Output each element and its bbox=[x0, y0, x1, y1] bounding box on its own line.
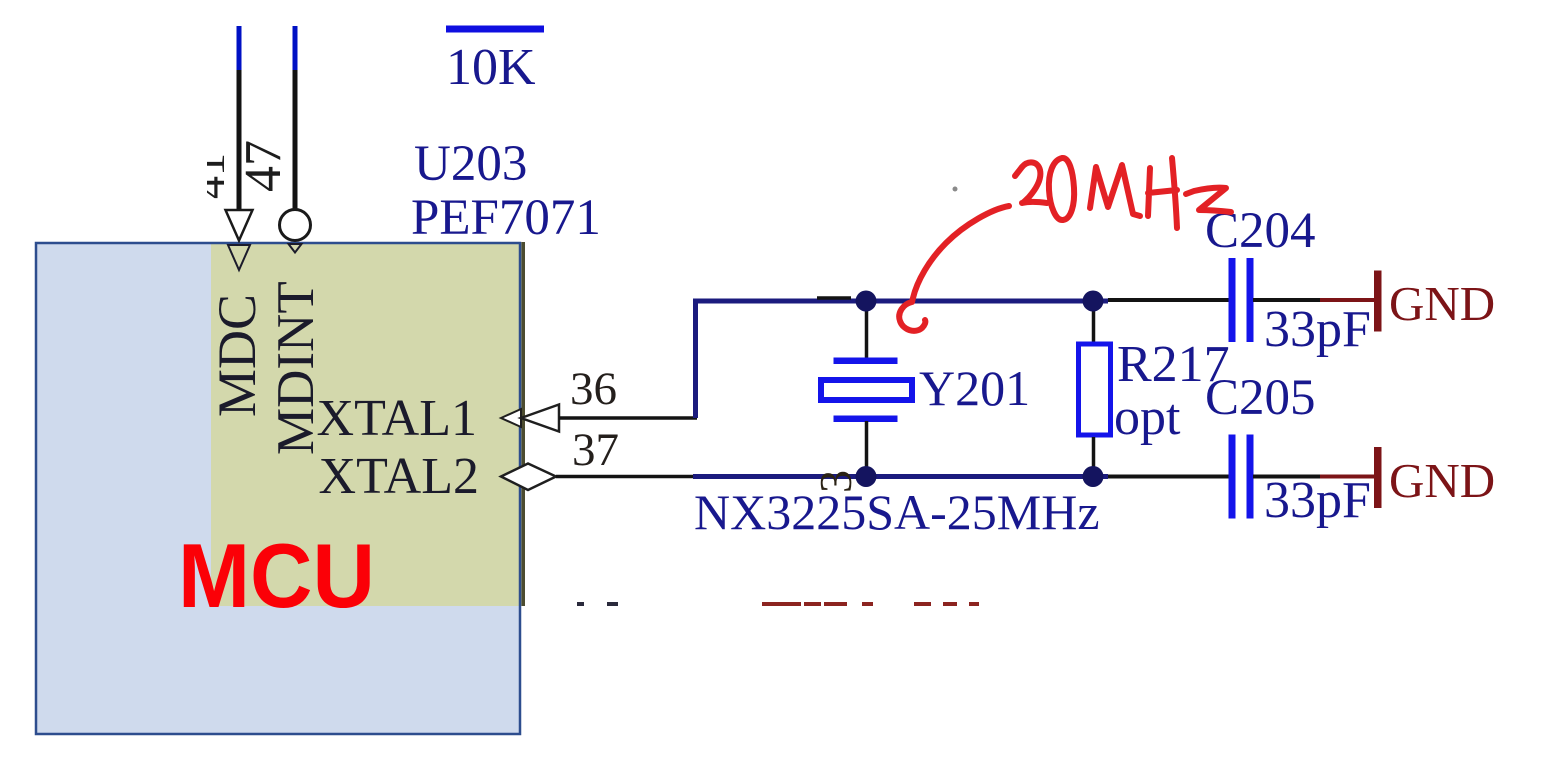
stray dot bbox=[953, 187, 958, 192]
svg-text:41: 41 bbox=[183, 153, 234, 199]
svg-text:opt: opt bbox=[1114, 389, 1181, 446]
clipped text row remnants (maroon dashes) bbox=[762, 602, 979, 606]
wire C205 GND stub (maroon) bbox=[1320, 475, 1375, 479]
annotation letter M (red) bbox=[1090, 165, 1140, 216]
annotation 20MHz arrow (red handwriting) bbox=[899, 206, 1009, 331]
wire XTAL2 (black segment) bbox=[556, 475, 695, 479]
wire MDC net (blue top segment) bbox=[237, 26, 242, 72]
wire top bus to C204 (black) bbox=[1108, 298, 1229, 302]
resistor R217 top lead bbox=[1092, 301, 1096, 343]
node junction dot (bottom, crystal) bbox=[856, 466, 877, 487]
svg-text:10K: 10K bbox=[446, 39, 536, 96]
annotation letter H (red) bbox=[1148, 158, 1177, 228]
crystal Y201 top plate bbox=[834, 358, 898, 365]
crystal Y201 bottom lead bbox=[865, 421, 869, 477]
wire XTAL1 (black segment) bbox=[559, 416, 697, 420]
resistor value 10K (overline bar) bbox=[446, 26, 544, 33]
svg-text:U203: U203 bbox=[414, 136, 527, 192]
node junction dot (top, R217) bbox=[1083, 291, 1104, 312]
svg-text:PEF7071: PEF7071 bbox=[411, 190, 601, 246]
wire C204 GND stub (maroon) bbox=[1320, 298, 1375, 302]
svg-text:MDC: MDC bbox=[207, 294, 267, 417]
svg-text:NX3225SA-25MHz: NX3225SA-25MHz bbox=[694, 484, 1100, 540]
svg-text:Y201: Y201 bbox=[919, 360, 1030, 416]
svg-text:MCU: MCU bbox=[178, 526, 375, 627]
pin number 41 fragment (rotated, partially hidden) bbox=[183, 153, 234, 199]
capacitor C205 right plate bbox=[1247, 435, 1254, 519]
node junction dot (bottom, R217) bbox=[1083, 466, 1104, 487]
wire C204 to GND (black) bbox=[1253, 298, 1322, 302]
svg-text:GND: GND bbox=[1389, 453, 1495, 508]
pin arrow MDC (input arrow into U203) bbox=[226, 210, 253, 241]
capacitor C204 left plate bbox=[1229, 258, 1236, 342]
wire bottom bus (navy) bbox=[693, 474, 1108, 479]
wire MDC net (black segment) bbox=[237, 70, 242, 211]
svg-text:XTAL1: XTAL1 bbox=[317, 390, 477, 447]
pin arrow MDINT inner (inside body) bbox=[289, 244, 302, 253]
pin arrow XTAL2 diamond (bidirectional) bbox=[501, 464, 556, 491]
pin arrow XTAL1 small (at body edge) bbox=[501, 409, 521, 427]
wire XTAL1 riser (navy vertical) bbox=[693, 299, 698, 419]
MCU U203 body border bbox=[36, 243, 520, 734]
annotation letter z (red) bbox=[1186, 188, 1231, 212]
svg-text:36: 36 bbox=[570, 363, 617, 415]
ground GND bar (top) bbox=[1374, 271, 1382, 332]
annotation digit 2 (red) bbox=[1015, 162, 1047, 203]
svg-text:37: 37 bbox=[572, 424, 619, 476]
pin MDINT inversion circle bbox=[280, 210, 311, 241]
wire C205 to GND (black) bbox=[1253, 475, 1322, 479]
crystal Y201 body bbox=[821, 380, 912, 400]
wire top bus black stub near junction bbox=[817, 296, 851, 300]
svg-text:33pF: 33pF bbox=[1264, 472, 1371, 529]
annotation digit 0 (red) bbox=[1049, 158, 1074, 220]
MCU U203 body (blue block) bbox=[36, 243, 520, 734]
capacitor C204 right plate bbox=[1247, 258, 1254, 342]
khaki region right edge line bbox=[522, 242, 526, 606]
wire bottom bus to C205 (black) bbox=[1108, 475, 1229, 479]
svg-text:GND: GND bbox=[1389, 276, 1495, 331]
resistor R217 body bbox=[1079, 344, 1111, 435]
capacitor C205 left plate bbox=[1229, 435, 1236, 519]
clipped text row remnants (dark) bbox=[577, 602, 584, 606]
svg-text:XTAL2: XTAL2 bbox=[319, 448, 479, 505]
svg-text:47: 47 bbox=[235, 140, 292, 192]
svg-text:C205: C205 bbox=[1205, 370, 1316, 426]
wire MDINT net (blue top segment) bbox=[293, 26, 298, 72]
crystal Y201 bottom plate bbox=[834, 416, 898, 423]
crystal Y201 top lead bbox=[865, 301, 869, 359]
wire MDINT net (black segment) bbox=[293, 70, 298, 209]
resistor R217 bottom lead bbox=[1092, 437, 1096, 477]
pin arrow MDC inner (inside body) bbox=[228, 245, 250, 270]
wire top bus (navy) bbox=[693, 299, 1108, 304]
pin arrow XTAL1 (input arrow) bbox=[521, 405, 559, 432]
node junction dot (top, crystal) bbox=[856, 291, 877, 312]
svg-text:33pF: 33pF bbox=[1264, 301, 1371, 358]
ground GND bar (bottom) bbox=[1374, 447, 1382, 508]
MCU highlighted region (khaki overlay) bbox=[211, 242, 522, 606]
